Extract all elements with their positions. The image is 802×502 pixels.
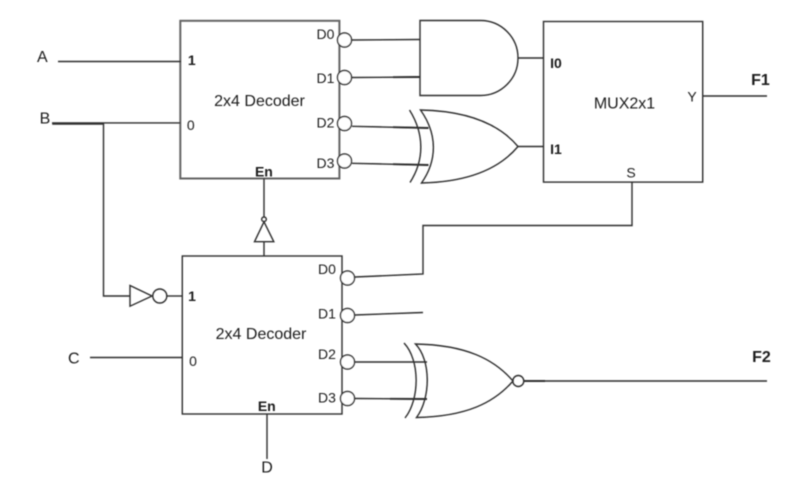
svg-text:D0: D0 xyxy=(318,261,336,277)
svg-text:Y: Y xyxy=(687,89,697,105)
svg-text:0: 0 xyxy=(187,117,195,133)
svg-text:S: S xyxy=(626,165,635,181)
svg-text:I0: I0 xyxy=(550,55,562,71)
svg-text:1: 1 xyxy=(188,288,196,304)
svg-text:D3: D3 xyxy=(317,155,335,171)
svg-text:D3: D3 xyxy=(318,390,336,406)
svg-text:A: A xyxy=(37,49,48,66)
svg-text:I1: I1 xyxy=(550,141,562,157)
svg-text:F1: F1 xyxy=(751,72,770,89)
svg-text:D0: D0 xyxy=(317,26,335,42)
svg-text:2x4 Decoder: 2x4 Decoder xyxy=(216,326,307,343)
svg-text:0: 0 xyxy=(189,353,197,369)
svg-text:D1: D1 xyxy=(318,306,336,322)
svg-text:En: En xyxy=(258,398,276,414)
svg-text:D2: D2 xyxy=(317,114,335,130)
svg-text:D: D xyxy=(261,460,273,477)
svg-text:D1: D1 xyxy=(317,70,335,86)
svg-text:En: En xyxy=(255,164,273,180)
svg-text:1: 1 xyxy=(188,52,196,68)
svg-text:D2: D2 xyxy=(318,346,336,362)
svg-text:C: C xyxy=(68,350,80,367)
svg-text:B: B xyxy=(40,111,51,128)
svg-text:MUX2x1: MUX2x1 xyxy=(594,96,655,113)
svg-text:2x4 Decoder: 2x4 Decoder xyxy=(214,93,305,110)
svg-text:F2: F2 xyxy=(752,349,771,366)
